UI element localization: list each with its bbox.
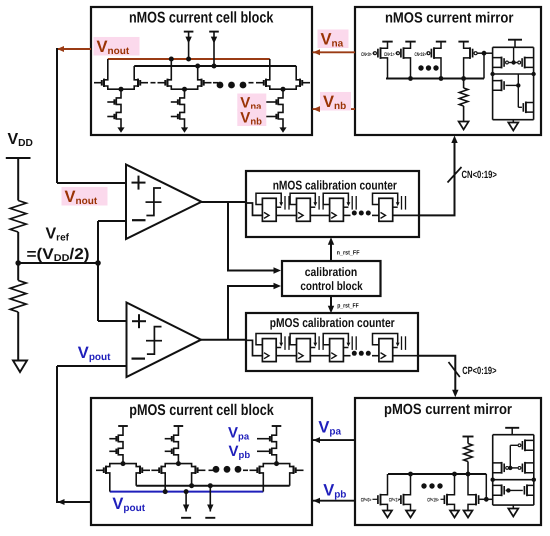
wire Vpa from pMOS mirror to cell block [313,439,356,441]
current source 2 (top, to black rail) [209,32,219,66]
nMOS cell block: black rail [134,65,296,67]
svg-text:CP<0:19>: CP<0:19> [462,365,496,377]
pMOS cell cascode stack at x=276.5 [270,426,277,464]
junction dots on pMOS black rail [189,483,194,488]
stack gate wires pcell1 [109,438,116,440]
wire Vpb from pMOS mirror to cell block [313,500,356,502]
dots between FF3 and FF4 [352,351,357,356]
node of diode gate [482,51,487,56]
svg-text:Vpout: Vpout [78,344,111,363]
nMOS cell block: red rail Vnout [108,58,270,60]
wire FF2-FF3 [310,214,329,216]
pMOS cell differential pair at x=178.4 [151,461,205,492]
svg-text:CP<1>: CP<1> [389,498,400,504]
wire gate node to pMOS cascode [486,498,492,500]
cascode current mirror group (nMOS mirror) [490,40,535,120]
resistor in nMOS mirror [463,79,465,89]
gate dash segments between cells (pMOS cell block) [209,469,214,471]
node Vref [15,260,21,266]
label Vna outer [318,29,349,48]
block box: pMOS current cell block [91,398,312,525]
wire comparator U2 into pMOS FF1 clock [246,340,262,355]
cascode gate wire bottom-left [506,84,519,86]
resistor R1 [10,201,26,233]
arrowhead CN bus up into nMOS mirror [451,136,457,144]
block box: calibration control block [282,261,381,296]
label Vnout lower (at comparator) [62,187,108,206]
ground of cascode group (pMOS mirror) [508,505,518,516]
nMOS mirror drain rail [386,78,484,80]
svg-text:CN<0:19>: CN<0:19> [462,169,497,181]
gate wire of pMOS diode transistor [480,498,487,500]
svg-text:pMOS current cell block: pMOS current cell block [129,402,274,419]
stack gate wires cell2 [171,101,178,103]
flip-flop FF2 [290,334,323,362]
arrowhead Vpb [313,498,320,504]
transistor CP<0> (pMOS mirror) [378,474,392,518]
cascode gate link and node [509,62,518,64]
pMOS cell differential pair at x=276.5 [250,461,304,492]
wire Vref to comparator U2 plus [98,320,127,322]
wire Vnout to comparator U1 plus [57,182,126,184]
VDD supply bar [6,157,31,159]
junction dots on nMOS mirror rail [408,76,413,81]
pMOS cell VDD bar at x=178.4 [174,425,184,427]
wire comparator U1 into FF1 clock [246,203,262,215]
svg-text:CP<0>: CP<0> [361,498,372,504]
diode-connected transistor (nMOS mirror) [458,42,477,79]
resistor R2 [10,280,26,312]
pMOS cell differential pair at x=123 [96,461,150,492]
wire U2 output branch up to control block [228,286,275,340]
label Vnout upper (inside cell block) [94,37,140,56]
cascode VDD bar [508,39,522,41]
current sink 2 (bottom, from black rail) [205,486,215,518]
wire Vref horizontal [18,262,98,264]
svg-text:nMOS current cell block: nMOS current cell block [129,10,274,27]
stack gate wires pcell2 [165,438,172,440]
dots in pMOS mirror row [421,483,426,488]
svg-text:VDD: VDD [8,131,33,149]
wire FF1-FF2 [276,355,296,357]
wire R1 to Vref node [17,232,19,263]
block box: nMOS current mirror [355,7,541,135]
stack gate wires cell1 [107,101,114,103]
junction dots on black rail [195,64,200,69]
wire CP bus from counter to pMOS mirror [418,356,455,391]
svg-text:Vpout: Vpout [112,495,145,514]
pMOS cascode transistor mid-left [493,463,502,473]
transistor CN<19> (nMOS mirror) [427,42,446,79]
pMOS cascode transistor low-left [493,485,502,495]
transistor CN<1> (nMOS mirror) [396,42,415,79]
wire FF1-FF2 [276,214,296,216]
wire pMOS counter output [393,355,418,357]
wire p_rst_FF [330,296,332,307]
wire Vnb from nMOS mirror to cell block [313,108,356,110]
gate dash segments between cells (nMOS cell block) [151,82,156,84]
ground arrow of cell at x=184.5 [181,127,188,132]
wire Vref node to R2 [17,263,19,280]
wire R2 to ground [17,312,19,360]
svg-text:calibration: calibration [305,265,358,279]
stack gate wires cell3 from Vna/Vnb labels [266,101,277,103]
wire FF3 to dots [343,355,350,357]
arrowhead Vnout [57,46,64,52]
transistor CP<19> (pMOS mirror) [444,474,459,518]
arrowhead Vna [313,49,320,55]
svg-text:=(VDD/2): =(VDD/2) [27,246,90,264]
ground of cascode group (nMOS mirror) [508,120,518,131]
wire dots to FF4 [372,214,379,216]
arrowhead CP bus down into pMOS mirror [452,390,458,398]
block box: nMOS calibration counter [246,171,419,237]
pMOS cascode VDD bar [505,427,519,429]
arrowhead into control block input 1 [274,267,282,273]
cascode stack of cell at x=283 [276,89,283,129]
svg-text:CN<19>: CN<19> [415,52,427,58]
wire Vpout black stub from pMOS cell block [58,501,91,503]
wire U1 output to nMOS calibration counter [202,201,247,203]
op-amp comparator U2 [127,303,202,378]
cascode bottom rail [493,119,534,121]
wire Vref to comparator U1 minus [98,220,126,222]
pMOS cell block: black rail [136,485,290,487]
cascode transistor nMOS bottom-left [493,81,502,91]
wire Vnout vertical [56,48,58,183]
cascode stack of cell at x=121 [114,89,121,129]
wire U1 output branch down to control block [228,202,275,271]
flip-flop FF2 [290,193,323,221]
svg-text:nMOS calibration counter: nMOS calibration counter [273,178,397,193]
svg-text:Vpa: Vpa [318,418,341,437]
block box: pMOS calibration counter [246,313,418,371]
junction dots on red rail [169,57,174,62]
block box: nMOS current cell block [91,7,312,135]
label Vna inner [237,94,266,111]
pMOS cell block: blue rail Vpout [110,491,263,493]
ground arrow of cell at x=283 [279,127,286,132]
dots between cells (nMOS cell block) [217,82,224,89]
pMOS cell VDD bar at x=123 [118,425,128,427]
ground symbol left chain [13,361,27,373]
svg-text:CN<1>: CN<1> [384,52,395,58]
current source 1 (top, to red rail) [184,32,194,59]
svg-text:pMOS calibration counter: pMOS calibration counter [270,315,395,330]
wire gate node down to rail [483,53,485,78]
arrowhead Vnb [313,106,320,112]
gate wire of diode transistor to node [478,52,485,54]
pMOS cell cascode stack at x=123 [116,426,123,464]
wire n_rst_FF [330,244,332,262]
flip-flop FF4 [373,193,406,221]
flip-flop FF4 [373,334,406,362]
flip-flop FF3 [323,334,356,362]
svg-text:Vpb: Vpb [229,443,251,461]
cascode outline rails [493,46,534,48]
block box: pMOS current mirror [355,398,541,525]
wire Vpout vertical [56,366,58,503]
stack gate wires pcell3 from Vpa/Vpb labels [257,438,270,440]
label Vnb outer [320,92,351,111]
op-amp comparator U1 [126,165,202,240]
node of pMOS diode gate [484,497,489,502]
svg-text:nMOS current mirror: nMOS current mirror [385,11,514,27]
pMOS cascode outline rails [493,434,534,436]
bus slash CN [448,167,462,183]
junction node on Vref wire [95,260,101,266]
dots in nMOS mirror row [418,65,423,70]
wire VDD to R1 [17,158,19,201]
wire Vnout red stub from nMOS cell block [57,48,91,50]
pMOS cascode bottom rail [493,504,534,506]
cascode transistor pMOS top-right [525,58,534,68]
svg-text:pMOS current mirror: pMOS current mirror [384,402,512,418]
pMOS cascode transistor top-right [525,440,534,450]
label Vnb inner [237,109,266,126]
svg-text:control block: control block [300,279,362,293]
pMOS cell VDD bar at x=276.5 [272,425,282,427]
wire nMOS counter output [393,214,419,216]
dots between FF3 and FF4 [352,211,357,216]
transistor CN<0> (nMOS mirror) [373,42,392,79]
current cell differential pair at x=121 [94,59,148,92]
ground arrow of cell at x=121 [117,127,124,132]
svg-text:Vref: Vref [46,226,70,244]
transistor CP<1> (pMOS mirror) [401,474,415,518]
junction dots on pMOS mirror rail [408,472,413,477]
ground in nMOS mirror (resistor) [459,122,469,130]
wire U2 output to pMOS calibration counter [201,339,246,341]
current sink 1 (bottom, from blue rail) [181,492,191,518]
svg-text:CP<19>: CP<19> [427,498,439,504]
wire FF2-FF3 [310,355,329,357]
resistor in pMOS mirror [463,437,474,475]
pMOS cascode mid rail [491,479,534,481]
svg-text:CN<0>: CN<0> [361,52,372,58]
flip-flop FF1 [256,334,289,362]
arrowhead Vpa [313,437,320,443]
pMOS cascode transistor low-right [527,485,534,495]
pMOS mirror drain rail [388,473,486,475]
current cell differential pair at x=283 [256,59,310,92]
svg-text:n_rst_FF: n_rst_FF [337,250,360,257]
wire Vna from nMOS mirror to cell block [313,51,356,53]
bus slash CP [449,362,460,377]
arrowhead p_rst_FF down into pMOS counter [328,306,334,314]
flip-flop FF1 [256,193,289,221]
cascode current mirror group (pMOS mirror) [491,428,537,505]
wire Vpout to comparator U2 minus [57,365,127,367]
cascode mid rail [493,73,534,75]
wire FF3 to dots [343,214,350,216]
svg-text:p_rst_FF: p_rst_FF [337,303,359,310]
arrowhead n_rst_FF up into nMOS counter [328,237,334,245]
current cell differential pair at x=184.5 [158,59,212,92]
wire CN bus from counter to nMOS mirror [419,142,455,216]
pMOS cell cascode stack at x=178.4 [172,426,179,464]
svg-text:Vpa: Vpa [228,425,250,443]
flip-flop FF3 [323,193,356,221]
wire gate node to cascode [484,52,493,54]
arrowhead into control block input 2 [274,283,282,289]
wire rail down to gate node [485,474,487,499]
diode-connected transistor (pMOS mirror) [464,474,479,518]
arrowhead Vpout [58,499,65,505]
svg-text:Vpb: Vpb [323,481,346,500]
pMOS cascode transistor mid-right [525,463,534,473]
wire dots to FF4 [372,355,379,357]
wire Vref riser [97,221,99,321]
cascode transistor nMOS bottom-right [526,103,534,113]
cascode transistor pMOS top-left [493,58,502,68]
dots between cells (pMOS cell block) [213,466,220,473]
cascode stack of cell at x=184.5 [178,89,185,129]
junction dots on blue rail [163,489,168,494]
